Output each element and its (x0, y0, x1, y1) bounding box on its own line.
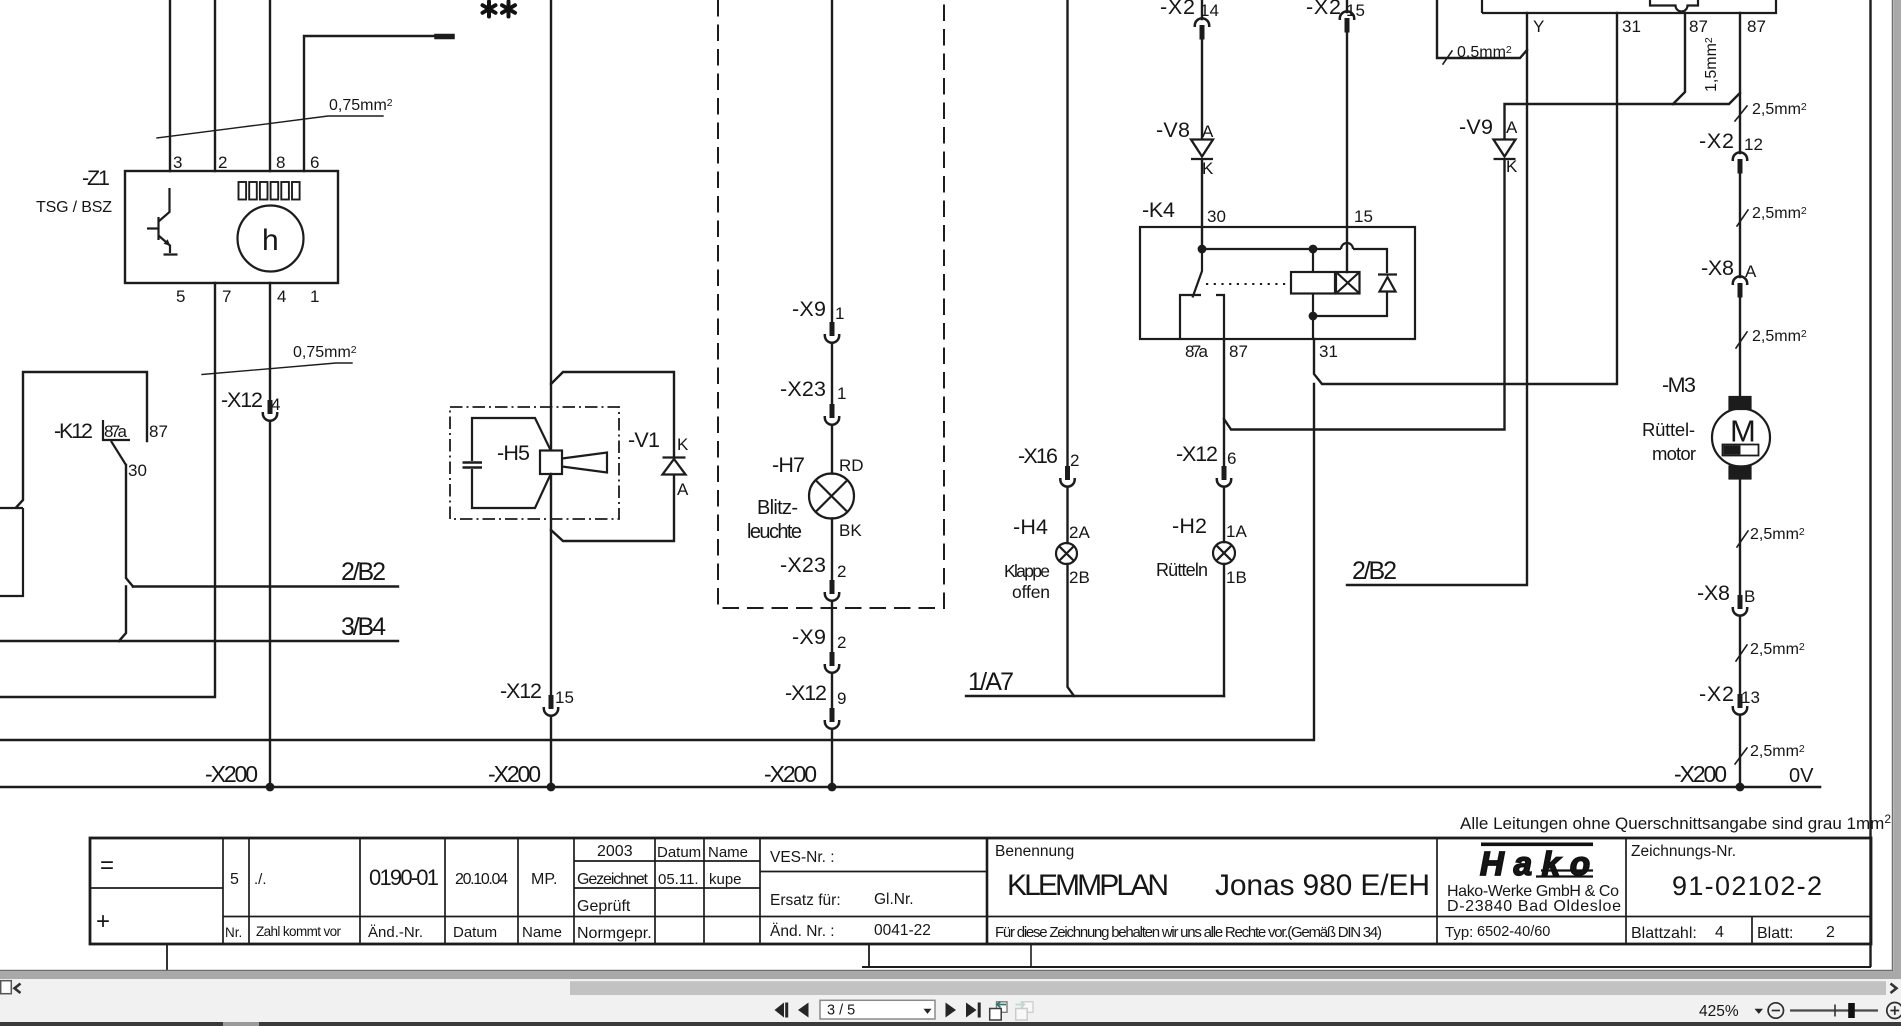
wire K12 upper net (17, 372, 148, 507)
svg-text:Datum: Datum (453, 924, 497, 941)
K4 internal diode (1378, 275, 1397, 292)
wire blitz chain vertical (831, 0, 833, 787)
svg-text:-H2: -H2 (1172, 514, 1207, 538)
tick 2,5mm third (1736, 332, 1747, 348)
connector X12:9 (825, 708, 839, 729)
svg-text:-V9: -V9 (1459, 115, 1493, 139)
svg-text:-X23: -X23 (780, 553, 826, 577)
svg-text:-X8: -X8 (1697, 581, 1730, 605)
svg-text:Normgepr.: Normgepr. (577, 925, 652, 942)
wire pin6 of Z1 branch with terminal (304, 36, 437, 171)
K4 switch pole (1193, 249, 1203, 298)
toolbar page box (820, 1000, 935, 1019)
scrollbar thumb (570, 981, 1886, 995)
motor M3 brush bottom (1730, 467, 1751, 479)
svg-text:+: + (96, 908, 110, 935)
K12 87a tick (103, 420, 130, 440)
svg-text:2B: 2B (1069, 568, 1090, 587)
connector X12:4 (263, 400, 277, 421)
hour-meter circle h in Z1 (238, 206, 304, 272)
tick 2,5mm fifth (1736, 645, 1747, 661)
svg-text:KLEMMPLAN: KLEMMPLAN (1007, 869, 1169, 902)
connector X9:1 (825, 322, 839, 343)
wire H5 vertical lower (550, 474, 552, 787)
svg-text:-X2: -X2 (1699, 682, 1734, 706)
svg-text:Benennung: Benennung (995, 843, 1074, 860)
svg-text:Blattzahl:: Blattzahl: (1631, 925, 1697, 942)
svg-text:Zeichnungs-Nr.: Zeichnungs-Nr. (1631, 843, 1736, 860)
svg-text:6: 6 (310, 153, 319, 172)
toolbar prev page button (798, 1003, 809, 1018)
svg-text:1: 1 (835, 304, 844, 323)
component box at left edge (K12 feed, cut) (0, 508, 23, 596)
svg-text:15: 15 (1354, 207, 1373, 226)
svg-text:Ersatz für:: Ersatz für: (770, 892, 841, 909)
K4 junction dot 30 (1198, 245, 1207, 254)
K4 contact 87 stub (1216, 295, 1224, 339)
toolbar zoom slider (1790, 1009, 1878, 1011)
leader 0,75mm lower (202, 363, 352, 375)
svg-text:6: 6 (1227, 449, 1236, 468)
frame tick mid (868, 945, 870, 967)
K4 coil crossed element (1336, 272, 1360, 294)
svg-text:Jonas 980 E/EH: Jonas 980 E/EH (1215, 869, 1430, 902)
H5 resonator loop (472, 418, 551, 508)
wire 31-return long line (0, 384, 1314, 740)
wire V9 anode to top box 87 (1505, 93, 1741, 139)
svg-text:A: A (1745, 262, 1757, 281)
svg-text:0190-01: 0190-01 (369, 865, 439, 890)
svg-text:8: 8 (276, 153, 285, 172)
svg-text:Zahl kommt vor: Zahl kommt vor (256, 924, 342, 939)
H5 capacitor plates (463, 463, 483, 468)
svg-text:0V: 0V (1789, 765, 1814, 787)
svg-text:Rüttel-: Rüttel- (1642, 419, 1695, 440)
bottom dark bar (0, 1022, 1901, 1026)
ground bus junction dot H5 (547, 783, 556, 792)
K4 junction dot coil top (1309, 245, 1318, 254)
wire Y branch 0,5mm to top (1437, 0, 1527, 58)
svg-text:A: A (677, 480, 689, 499)
svg-text:3 / 5: 3 / 5 (827, 1003, 855, 1019)
connector X9:2 (825, 652, 839, 673)
tick 2,5mm second (1737, 210, 1748, 226)
svg-text:5: 5 (176, 287, 185, 306)
svg-text:-X2: -X2 (1699, 129, 1734, 153)
svg-text:2003: 2003 (597, 843, 633, 860)
svg-text:31: 31 (1319, 342, 1338, 361)
connector X2:14 (1195, 18, 1209, 39)
svg-text:1,5mm2: 1,5mm2 (1703, 37, 1720, 92)
svg-text:K: K (1506, 157, 1518, 176)
dashed enclosure Blitzleuchte circuit (718, 0, 944, 608)
svg-text:2: 2 (837, 633, 846, 652)
svg-text:-X9: -X9 (792, 625, 826, 649)
K4 coil body (1291, 272, 1335, 294)
svg-text:kupe: kupe (709, 871, 742, 888)
svg-text:MP.: MP. (531, 871, 557, 888)
svg-text:Name: Name (708, 844, 748, 861)
svg-text:D-23840 Bad Oldesloe: D-23840 Bad Oldesloe (1447, 898, 1621, 915)
logo Hako (1480, 843, 1593, 883)
svg-text:6502-40/60: 6502-40/60 (1477, 924, 1550, 940)
motor M3 body (1712, 409, 1770, 467)
wire Z1 pin4 down to X200 (269, 283, 271, 787)
svg-text:Blatt:: Blatt: (1757, 925, 1793, 942)
svg-text:-X200: -X200 (764, 761, 817, 787)
connector X2:12 (1733, 152, 1747, 173)
wire Z1 pin7 down and left (0, 283, 215, 697)
svg-text:-K12: -K12 (54, 419, 93, 443)
transistor Q inside Z1 (147, 188, 178, 255)
svg-text:Blitz-: Blitz- (757, 497, 798, 519)
svg-text:-V1: -V1 (628, 428, 660, 452)
ground bus junction dot X12-4 (266, 783, 275, 792)
svg-text:7: 7 (222, 287, 231, 306)
H5 horn dash-dot enclosure (450, 407, 619, 519)
toolbar slider tick (1834, 1005, 1836, 1017)
svg-text:2: 2 (218, 153, 227, 172)
wire Y leg down to 2/B2 (1347, 13, 1527, 585)
toolbar page dropdown caret (924, 1009, 932, 1014)
svg-text:9: 9 (837, 689, 846, 708)
svg-text:1/A7: 1/A7 (968, 668, 1014, 696)
drawing frame bottom edge (862, 966, 1871, 968)
toolbar next page button (946, 1003, 957, 1018)
svg-text:M: M (1730, 414, 1756, 449)
toolbar next view icon grayed (1016, 1002, 1034, 1021)
svg-text:-H5: -H5 (497, 441, 530, 465)
toolbar last page button (966, 1003, 977, 1018)
wire K4-87 down to X12-6 and H2 (1223, 339, 1225, 696)
lamp H2 Ruetteln (1213, 542, 1235, 564)
K4 30 rail with hop over 15 (1202, 243, 1387, 273)
svg-text:1: 1 (837, 384, 846, 403)
svg-text:Nr.: Nr. (225, 925, 242, 940)
svg-text:Y: Y (1533, 17, 1544, 36)
svg-text:-X12: -X12 (500, 679, 542, 703)
svg-text:-X12: -X12 (221, 388, 263, 412)
wire 2/B2 left line (133, 585, 398, 587)
svg-text:Gezeichnet: Gezeichnet (577, 871, 649, 888)
wire K12 30 contact down (119, 465, 133, 641)
connector X12:15 (544, 695, 558, 716)
svg-text:1A: 1A (1226, 522, 1247, 541)
K12 switch arm (111, 441, 126, 465)
connector X8:A (1733, 276, 1747, 297)
connector strip rectangles in Z1 (239, 182, 247, 200)
wire X200 ground bus (0, 786, 1820, 789)
svg-text:-X2: -X2 (1160, 0, 1195, 19)
connector X8:B (1733, 595, 1747, 616)
svg-text:-Z1: -Z1 (82, 166, 110, 190)
V1 diode (663, 458, 686, 475)
tick 2,5mm top (1735, 106, 1747, 121)
tick 2,5mm sixth (1735, 748, 1747, 764)
toolbar first page button (775, 1003, 785, 1018)
ground bus junction dot H7 (828, 783, 837, 792)
svg-text:VES-Nr. :: VES-Nr. : (770, 849, 835, 866)
connector X23:1 (825, 404, 839, 425)
svg-text:Name: Name (522, 924, 562, 941)
svg-text:1B: 1B (1226, 568, 1247, 587)
ground bus junction dot M3 (1736, 783, 1745, 792)
svg-text:RD: RD (839, 456, 864, 475)
transistor emitter arrow (165, 240, 170, 245)
wire pin2 of Z1 from top (214, 0, 216, 171)
svg-text:Änd.-Nr.: Änd.-Nr. (368, 924, 423, 941)
wire X2-14 to V8 to K4 (1201, 0, 1203, 249)
lamp H4 Klappe offen (1056, 543, 1077, 564)
svg-text:offen: offen (1012, 582, 1050, 602)
K4 actuator dotted link (1206, 283, 1291, 285)
svg-text:-M3: -M3 (1662, 373, 1696, 397)
title block outer border (90, 838, 1871, 944)
svg-text:Typ:: Typ: (1445, 924, 1473, 941)
svg-text:1: 1 (310, 287, 319, 306)
K4 junction dot coil bottom (1309, 312, 1318, 321)
K4 contact 87a (1180, 295, 1201, 339)
svg-text:12: 12 (1744, 135, 1763, 154)
svg-text:-X12: -X12 (1176, 442, 1218, 466)
svg-text:3: 3 (173, 153, 182, 172)
svg-text:B: B (1744, 587, 1755, 606)
toolbar slider thumb (1848, 1003, 1855, 1018)
scrollbar left arrow (15, 984, 21, 994)
tick 2,5mm fourth (1737, 531, 1748, 547)
svg-text:Gl.Nr.: Gl.Nr. (874, 891, 914, 908)
svg-text:Rütteln: Rütteln (1156, 560, 1208, 580)
wire motor chain (1739, 13, 1741, 787)
svg-text:motor: motor (1652, 443, 1696, 464)
drawing frame right edge (1869, 0, 1871, 967)
wire V1 parallel loop (551, 372, 674, 541)
lamp H7 Blitzleuchte (809, 474, 854, 519)
connector X23:2 (825, 580, 839, 601)
asterisk marker 1 (483, 2, 496, 17)
svg-text:2,5mm2: 2,5mm2 (1752, 101, 1807, 118)
svg-text:87: 87 (149, 422, 168, 441)
svg-text:Für diese Zeichnung behalten w: Für diese Zeichnung behalten wir uns all… (995, 924, 1382, 941)
svg-text:-X8: -X8 (1701, 256, 1734, 280)
svg-text:2,5mm2: 2,5mm2 (1752, 205, 1807, 222)
svg-text:-X200: -X200 (205, 761, 258, 787)
diode V9 (1494, 140, 1516, 160)
svg-text:87: 87 (1229, 342, 1248, 361)
svg-text:2: 2 (1826, 924, 1835, 941)
motor M3 magnet bar (1723, 445, 1759, 456)
svg-text:2,5mm2: 2,5mm2 (1752, 328, 1807, 345)
svg-text:-K4: -K4 (1142, 198, 1175, 222)
scrollbar right arrow (1891, 984, 1897, 994)
H5 horn flare (562, 453, 607, 473)
leader 0,75mm upper (157, 116, 383, 138)
svg-text:2: 2 (837, 562, 846, 581)
svg-text:4: 4 (277, 287, 286, 306)
wire X16 branch (1068, 0, 1075, 696)
viewer background band right (1893, 0, 1901, 971)
svg-text:-X12: -X12 (785, 681, 827, 705)
svg-text:-X200: -X200 (1674, 761, 1727, 787)
svg-text:05.11.: 05.11. (658, 871, 699, 888)
svg-text:13: 13 (1741, 688, 1760, 707)
svg-text:30: 30 (1207, 207, 1226, 226)
svg-text:K: K (1202, 159, 1214, 178)
svg-text:BK: BK (839, 521, 862, 540)
svg-text:2,5mm2: 2,5mm2 (1750, 526, 1805, 543)
viewer background band bottom (0, 971, 1901, 979)
svg-text:K: K (677, 435, 689, 454)
wire 1/A7 line (966, 695, 1224, 697)
H5 driver square (540, 451, 562, 475)
wire K4-31 jog to top box (1314, 13, 1617, 384)
svg-text:0041-22: 0041-22 (874, 922, 931, 939)
top-right box (cut) (1482, 0, 1776, 13)
svg-text:-X2: -X2 (1306, 0, 1341, 19)
svg-text:15: 15 (555, 688, 574, 707)
svg-text:14: 14 (1200, 1, 1219, 20)
svg-text:0,5mm2: 0,5mm2 (1457, 44, 1512, 61)
svg-text:2,5mm2: 2,5mm2 (1750, 743, 1805, 760)
terminal stub ** wire end (437, 34, 452, 40)
svg-text:91-02102-2: 91-02102-2 (1672, 871, 1822, 901)
svg-text:=: = (100, 852, 114, 879)
title block verticals (223, 838, 1752, 944)
svg-text:2A: 2A (1069, 523, 1090, 542)
svg-text:87: 87 (1689, 17, 1708, 36)
svg-text:0,75mm2: 0,75mm2 (293, 344, 357, 361)
svg-text:2,5mm2: 2,5mm2 (1750, 641, 1805, 658)
svg-text:87a: 87a (104, 422, 128, 441)
svg-text:-H4: -H4 (1013, 515, 1048, 539)
frame tick right (1030, 945, 1032, 967)
diode V8 (1191, 140, 1213, 160)
box Z1 TSG/BSZ (125, 171, 338, 283)
svg-text:0,75mm2: 0,75mm2 (329, 97, 393, 114)
connector X2:15 (1340, 11, 1354, 32)
connector X2:13 (1733, 694, 1747, 715)
toolbar zoom out circle (1768, 1003, 1783, 1018)
connector X12:6 (1217, 466, 1231, 487)
svg-text:-X23: -X23 (780, 377, 826, 401)
svg-text:Änd. Nr. :: Änd. Nr. : (770, 923, 835, 940)
asterisk marker 2 (502, 2, 515, 17)
svg-text:-H7: -H7 (772, 453, 805, 477)
svg-text:87a: 87a (1185, 342, 1209, 361)
wire 87 branch to V9 (1224, 160, 1505, 430)
K4 diode bottom return (1313, 292, 1387, 317)
svg-text:Geprüft: Geprüft (577, 898, 631, 915)
frame tick left (166, 945, 168, 970)
wire 3/B4 left line (0, 640, 398, 642)
wire pin8 of Z1 from top (269, 0, 271, 171)
svg-text:TSG / BSZ: TSG / BSZ (36, 199, 112, 216)
wire top box 87a leg (1673, 13, 1685, 104)
svg-text:3/B4: 3/B4 (341, 613, 386, 641)
wire H5 vertical upper (550, 0, 552, 450)
svg-text:30: 30 (128, 461, 147, 480)
wire pin3 of Z1 from top (169, 0, 171, 171)
svg-text:Alle Leitungen ohne Querschnit: Alle Leitungen ohne Querschnittsangabe s… (1460, 812, 1891, 833)
toolbar zoom caret (1755, 1009, 1764, 1014)
svg-text:2/B2: 2/B2 (341, 558, 386, 586)
relay box K4 (1140, 227, 1415, 339)
svg-text:5: 5 (230, 871, 239, 888)
bottom bar light segment (223, 1022, 259, 1026)
svg-text:2/B2: 2/B2 (1352, 557, 1397, 585)
toolbar previous view icon (990, 1002, 1007, 1021)
svg-text:Klappe: Klappe (1004, 561, 1050, 581)
scrollbar corner box (1, 981, 12, 994)
svg-text:-X9: -X9 (792, 297, 826, 321)
svg-text:A: A (1506, 118, 1518, 137)
svg-text:Datum: Datum (657, 844, 701, 861)
tick 0,5mm (1443, 51, 1452, 64)
svg-text:leuchte: leuchte (747, 521, 802, 543)
svg-text:15: 15 (1346, 1, 1365, 20)
svg-text:A: A (1202, 122, 1214, 141)
svg-text:425%: 425% (1699, 1003, 1739, 1020)
K4 coil top feed (1312, 249, 1314, 339)
scrollbar and toolbar background (0, 979, 1901, 1022)
motor M3 brush top (1730, 397, 1751, 409)
title block horizontals (90, 861, 1871, 917)
svg-text:31: 31 (1622, 17, 1641, 36)
svg-text:-X16: -X16 (1018, 444, 1058, 468)
svg-text:20.10.04: 20.10.04 (455, 871, 508, 888)
svg-text:-X200: -X200 (488, 761, 541, 787)
svg-text:-V8: -V8 (1156, 118, 1190, 142)
connector X16:2 (1060, 466, 1074, 487)
svg-text:4: 4 (1715, 924, 1724, 941)
svg-text:4: 4 (271, 395, 280, 414)
wire X2-15 to K4 coil (1346, 0, 1348, 272)
svg-text:87: 87 (1747, 17, 1766, 36)
toolbar zoom in circle (1887, 1003, 1901, 1019)
section divider (986, 838, 989, 944)
svg-text:./.: ./. (254, 871, 267, 888)
svg-text:2: 2 (1070, 451, 1079, 470)
svg-text:h: h (262, 224, 279, 257)
